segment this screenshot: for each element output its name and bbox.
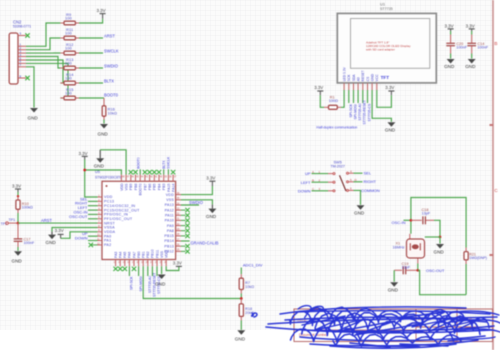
no-connect X marks on U5 bottom pins — [113, 267, 136, 271]
junction on 3.3V wire — [83, 169, 86, 172]
power 3.3V above R10 — [12, 184, 21, 192]
crystal X1 16MHz — [393, 234, 425, 264]
CN2 pin 7 — [18, 63, 26, 67]
connector CN2 — [9, 19, 31, 84]
resistor R1 — [324, 96, 341, 110]
svg-text:GND: GND — [206, 214, 217, 219]
svg-text:B: B — [494, 41, 497, 46]
svg-text:with SD card adapter: with SD card adapter — [366, 48, 395, 52]
svg-text:PA4: PA4 — [119, 252, 123, 258]
SW5 pin 6 — [349, 187, 354, 191]
wire CN2 pin4 to R13 — [26, 57, 60, 69]
U1 pin LED 3.3V — [343, 66, 347, 90]
wire U1 CS stub — [367, 90, 369, 103]
svg-text:TM-2027: TM-2027 — [331, 165, 345, 169]
no-connect X marks on U5 top pins — [129, 170, 176, 174]
svg-text:GND: GND — [354, 211, 365, 216]
U5 top pin labels — [120, 183, 176, 196]
wire U5 PA1 to net DOWN — [88, 240, 98, 242]
test point TP1 — [1, 218, 19, 226]
svg-text:PA9: PA9 — [167, 224, 174, 228]
wire R15 to net BOOT0 and R16 — [79, 97, 104, 99]
svg-text:100: 100 — [65, 16, 72, 21]
power 3.3V below right of U5 — [173, 261, 182, 267]
svg-text:LED 3.3V: LED 3.3V — [343, 66, 347, 81]
wire U5 PB2 pin down — [147, 266, 149, 276]
SW5 pin 4 — [349, 170, 354, 174]
U1 pin SCK — [347, 74, 351, 90]
svg-text:3.3V: 3.3V — [55, 228, 64, 233]
wire U1 RESET stub — [362, 90, 364, 103]
wire 3.3V to R1 — [320, 95, 324, 107]
svg-text:GND: GND — [235, 337, 246, 342]
svg-text:GND: GND — [385, 128, 396, 133]
svg-text:GND: GND — [371, 73, 375, 81]
svg-text:GND: GND — [12, 258, 23, 263]
wire U5 PB0 pin down — [138, 266, 140, 276]
U5 bottom pin labels — [114, 249, 169, 258]
svg-text:BOOT0: BOOT0 — [136, 157, 140, 169]
svg-text:100Ω: 100Ω — [329, 99, 338, 103]
svg-text:ST7735-RESET: ST7735-RESET — [363, 100, 367, 124]
svg-text:ARST: ARST — [104, 34, 115, 39]
svg-text:COMMON: COMMON — [361, 188, 380, 193]
resistor R12 — [60, 42, 79, 55]
svg-text:PB4: PB4 — [157, 183, 161, 190]
U1 pin SDA — [352, 74, 356, 90]
wire junction to ground — [439, 237, 441, 244]
svg-text:SPI-SCK: SPI-SCK — [349, 103, 353, 117]
svg-text:3.3V: 3.3V — [206, 176, 215, 181]
U5 right pin labels — [164, 193, 174, 254]
svg-text:3.3V: 3.3V — [79, 151, 88, 156]
wire U1 VCC pin to 3.3V — [377, 90, 392, 107]
svg-text:PB2: PB2 — [146, 251, 150, 258]
wire crystal bottom loop — [418, 270, 466, 294]
svg-text:TP1: TP1 — [9, 218, 16, 222]
svg-text:DOWN: DOWN — [75, 236, 88, 241]
svg-text:U5: U5 — [95, 170, 100, 174]
svg-text:100kΩ: 100kΩ — [22, 206, 33, 210]
svg-text:GND: GND — [388, 288, 399, 293]
svg-text:100: 100 — [65, 46, 72, 51]
svg-text:GND: GND — [98, 132, 109, 137]
junction OSC-OUT node — [416, 269, 419, 272]
wire C20 to ground — [450, 54, 452, 59]
svg-text:3.3V: 3.3V — [385, 85, 394, 90]
wire CN2 pin2 to R11 — [26, 38, 60, 50]
U5 bottom pin stubs (pins 13-24) — [116, 260, 167, 267]
ground symbol below C19 — [388, 282, 399, 292]
wire TP1 junction to U5 NRST (net ARST) — [18, 222, 98, 224]
svg-text:PB5: PB5 — [153, 183, 157, 190]
wire SW5 pin C3 to net DOWN — [312, 190, 329, 192]
svg-text:RESET: RESET — [361, 70, 365, 81]
wire 3.3V to C20 — [450, 31, 452, 35]
ground symbol below U5 — [155, 275, 166, 287]
wire U5 PF1 to net OSC-OUT — [88, 218, 98, 220]
svg-text:10kΩ: 10kΩ — [245, 285, 254, 289]
capacitor C20 100nF — [446, 35, 467, 54]
svg-text:53398-0771: 53398-0771 — [13, 25, 31, 29]
wire U1 SDA stub — [353, 90, 355, 103]
CN2 pin 2 — [18, 46, 26, 50]
no-connect stubs and X marks on U5 right pins — [181, 210, 186, 251]
wire U5 PA15 pin up — [167, 169, 169, 174]
wire U5 VSSA pin to ground — [52, 228, 98, 232]
svg-text:3.3V: 3.3V — [97, 8, 106, 13]
junction TP1 node — [17, 222, 20, 225]
svg-text:PA5: PA5 — [123, 252, 127, 258]
svg-text:100nF: 100nF — [477, 46, 488, 50]
wire U1 SCK stub — [348, 90, 350, 103]
wire U1 A0 stub — [357, 90, 359, 103]
svg-text:Half-duplex communication: Half-duplex communication — [316, 126, 357, 130]
svg-text:VDD: VDD — [104, 195, 113, 199]
junction OSC-IN node — [410, 219, 413, 222]
svg-text:SDA: SDA — [352, 74, 356, 82]
svg-text:PB11: PB11 — [155, 250, 159, 258]
U5 left pin stubs (pins 1-12) — [98, 197, 103, 245]
wire R21 to bottom loop — [465, 264, 467, 295]
svg-text:PB7: PB7 — [143, 183, 147, 190]
wire U5 PC14 to net RIGHT — [88, 205, 98, 207]
svg-text:ADC1_DIV: ADC1_DIV — [243, 262, 263, 267]
svg-text:100: 100 — [65, 76, 72, 81]
resistor R15 — [60, 87, 79, 100]
svg-text:100: 100 — [65, 61, 72, 66]
svg-text:PB1: PB1 — [142, 251, 146, 258]
svg-text:CN2: CN2 — [13, 19, 22, 24]
power 3.3V above U5 — [79, 151, 88, 160]
resistor R10 100k — [16, 197, 33, 214]
svg-text:PA12: PA12 — [165, 208, 174, 212]
wire SW5 pin 6 COMMON to ground — [354, 190, 361, 204]
wire U5 PB3 pin up — [163, 169, 165, 174]
power 3.3V above C14 — [466, 23, 475, 31]
svg-text:PA10: PA10 — [165, 219, 174, 223]
wire C19 to ground — [393, 270, 395, 281]
SW5 pin A1 — [312, 170, 333, 174]
svg-text:ST7735-CS: ST7735-CS — [367, 103, 371, 121]
svg-text:GND: GND — [28, 116, 39, 121]
svg-text:CS: CS — [366, 76, 370, 81]
wire R16 to ground — [103, 120, 105, 124]
svg-text:GND: GND — [94, 163, 105, 168]
resistor R7 10k — [239, 274, 254, 293]
CN2 pin 8 — [18, 74, 26, 78]
wire 3.3V to C14 — [471, 31, 473, 35]
wire 3.3V to U5 VDD pins — [85, 160, 98, 198]
wire U5 BOOT0 pin up — [139, 169, 141, 174]
ground symbol right of U5 — [206, 205, 217, 219]
svg-text:VSS: VSS — [166, 198, 174, 202]
power 3.3V right of U1 — [385, 85, 394, 95]
resistor R18 20k — [239, 299, 254, 321]
svg-text:PA2: PA2 — [104, 243, 111, 247]
wire U5 PB10 pin down — [151, 266, 153, 276]
wire C18 to crystal case junction — [434, 220, 440, 237]
capacitor C19 13pF — [394, 262, 418, 274]
svg-text:VCC: VCC — [375, 74, 379, 82]
svg-text:OSC-IN: OSC-IN — [392, 220, 406, 225]
svg-text:PB14: PB14 — [164, 239, 174, 243]
svg-text:SWDIO: SWDIO — [104, 64, 118, 69]
junction ADC divider node — [240, 297, 243, 300]
wire U5 PC15 to net LEFT — [88, 209, 98, 211]
ground symbol right of crystal — [434, 244, 445, 254]
svg-text:GND: GND — [155, 281, 166, 286]
svg-text:PA6: PA6 — [128, 252, 132, 258]
svg-text:PA1: PA1 — [104, 239, 111, 243]
U5 right pin numbers — [177, 192, 180, 252]
svg-text:3.3V: 3.3V — [314, 85, 323, 90]
capacitor C17 100nF — [14, 223, 35, 247]
wire U5 PA0 to net UP — [88, 235, 98, 237]
svg-text:100nF: 100nF — [456, 46, 467, 50]
svg-text:GRAND-CALIB: GRAND-CALIB — [191, 241, 219, 246]
svg-text:A0: A0 — [357, 77, 361, 81]
blue pen scribble over title block — [252, 306, 500, 349]
ground symbol below R18 — [235, 330, 246, 341]
svg-text:PA3: PA3 — [114, 252, 118, 258]
svg-text:GND: GND — [465, 64, 476, 69]
CN2 pin 4 — [18, 53, 26, 57]
wire R13 to net SWDIO — [79, 67, 103, 69]
svg-text:PB9: PB9 — [129, 183, 133, 190]
svg-text:16MHz: 16MHz — [393, 246, 405, 250]
CN2 pin 1 — [18, 43, 26, 47]
svg-text:PB10: PB10 — [151, 249, 155, 258]
U1 pin RESET — [361, 70, 365, 90]
ground symbol below SW5 — [354, 205, 365, 215]
svg-text:PA7: PA7 — [132, 252, 136, 258]
CN2 pin 9 — [18, 32, 26, 36]
power 3.3V right of U5 — [206, 176, 215, 186]
wire net ADC1_DIV to R7 — [240, 268, 242, 275]
svg-text:SWDIO: SWDIO — [189, 200, 203, 205]
svg-text:3.3V: 3.3V — [12, 184, 21, 189]
wire R11 to net ARST — [79, 37, 103, 39]
wire CN2 pin3 to R12 — [26, 52, 60, 54]
svg-text:3.3V: 3.3V — [173, 261, 182, 266]
svg-text:VDDA: VDDA — [104, 230, 116, 234]
svg-text:PA15: PA15 — [167, 183, 171, 191]
wire junction to U5 top VDD pin — [85, 170, 122, 175]
svg-text:ST7735: ST7735 — [380, 7, 393, 11]
svg-text:PB15: PB15 — [164, 234, 174, 238]
U5 right pin stubs (pins 25-36) — [176, 195, 181, 252]
power 3.3V left of U5 — [55, 228, 64, 238]
svg-text:3.3V: 3.3V — [445, 23, 454, 28]
svg-text:RIGHT: RIGHT — [364, 179, 377, 184]
svg-text:SWCLK: SWCLK — [104, 49, 119, 54]
svg-text:13pF: 13pF — [402, 266, 411, 270]
SW5 pin B2 — [312, 179, 333, 183]
svg-text:PA8: PA8 — [167, 229, 174, 233]
CN2 pin 3 — [18, 49, 26, 53]
resistor R11 — [60, 27, 79, 40]
svg-text:TFT: TFT — [381, 75, 390, 80]
svg-text:3.3V: 3.3V — [466, 23, 475, 28]
svg-text:10kΩ: 10kΩ — [108, 111, 117, 116]
svg-text:SPI-SCK: SPI-SCK — [130, 276, 134, 290]
svg-text:PF0/OSC_IN: PF0/OSC_IN — [104, 213, 128, 217]
svg-text:BLTX: BLTX — [162, 160, 166, 169]
svg-text:LEFT: LEFT — [301, 180, 311, 185]
ground symbol below R16 — [98, 124, 109, 137]
wire 3.3V to R10 — [17, 192, 19, 197]
U5 left pin numbers 1-12 — [97, 194, 100, 245]
ground symbol left of U5 — [46, 232, 57, 245]
wire CN2 pin5 to R14 — [26, 60, 63, 83]
power 3.3V above R9 — [97, 8, 106, 19]
svg-text:GND: GND — [46, 240, 57, 245]
wire crystal bottom pin to OSC-OUT junction — [417, 264, 419, 271]
svg-text:PB6: PB6 — [148, 183, 152, 190]
ground symbol below CN2 — [28, 108, 39, 121]
ground symbol below C17 — [12, 251, 23, 263]
ground symbol above U5 — [94, 150, 105, 169]
svg-text:SCK: SCK — [347, 74, 351, 82]
svg-text:UP: UP — [305, 171, 311, 176]
wire C14 to ground — [471, 54, 473, 59]
wire U5 PC13 to net SEL — [88, 200, 98, 202]
wire U5 PB1 pin to ADC divider — [143, 266, 241, 298]
wire SW5 pin A1 to net UP — [312, 173, 329, 175]
svg-text:NRST: NRST — [104, 221, 116, 225]
U5 left pin labels — [104, 195, 140, 247]
ground symbol below C20 — [444, 59, 455, 69]
svg-text:PA13: PA13 — [165, 203, 174, 207]
svg-text:ST7735-A0: ST7735-A0 — [358, 103, 362, 120]
svg-text:Document Number:: Document Number: — [299, 333, 328, 337]
CN2 pin 5 — [18, 56, 26, 60]
svg-text:PB3: PB3 — [162, 183, 166, 190]
wire C17 to ground — [17, 247, 19, 251]
svg-text:BOOT0: BOOT0 — [104, 93, 119, 98]
resistor R13 — [60, 57, 79, 70]
svg-text:STM32F030C8T6: STM32F030C8T6 — [95, 176, 122, 180]
svg-text:SWCLK: SWCLK — [167, 156, 171, 169]
wire CN2 pin7 to ground — [26, 67, 34, 108]
svg-text:OSC-OUT: OSC-OUT — [69, 214, 88, 219]
svg-text:BLTX: BLTX — [104, 79, 114, 84]
svg-text:1MΩ(DNP): 1MΩ(DNP) — [469, 256, 487, 260]
wire crystal top loop — [411, 198, 466, 248]
svg-text:PB13: PB13 — [164, 244, 174, 248]
svg-text:PA14: PA14 — [172, 183, 176, 191]
resistor R21 1M DNP — [464, 248, 487, 265]
svg-text:VSS: VSS — [160, 250, 164, 258]
CN2 pin 6 — [18, 60, 26, 64]
svg-text:13pF: 13pF — [422, 212, 431, 216]
svg-text:DOWN: DOWN — [298, 188, 311, 193]
U1 pin A0 — [357, 77, 361, 90]
no-connect X on CN2 pin 8 — [25, 76, 29, 80]
no-connect stub and X on U5 PA2 — [91, 244, 98, 246]
svg-text:VSS: VSS — [125, 183, 129, 191]
no-connect X on CN2 pin 9 — [25, 33, 29, 37]
svg-text:PB8: PB8 — [134, 183, 138, 190]
wire SW5 pin 4 to net SEL — [354, 172, 363, 174]
resistor R9 — [60, 12, 79, 25]
TFT display module U1 ST7735 — [337, 1, 436, 83]
svg-text:PB0: PB0 — [137, 251, 141, 258]
svg-text:SEL: SEL — [364, 171, 372, 176]
wire OSC-IN stub — [404, 219, 411, 221]
wire U5 PA13 pin to net SWDIO — [181, 204, 199, 206]
title block — [294, 309, 493, 342]
sheet frame right border — [490, 0, 494, 350]
SW5 pin C3 — [312, 187, 333, 191]
wire U1 GND pin to ground — [372, 90, 391, 122]
wire CN2 pin1 to R9 — [26, 23, 60, 46]
ground symbol right of U1 — [385, 122, 396, 132]
wire R14 to net BLTX — [79, 82, 103, 84]
ground symbol below C14 — [465, 59, 476, 69]
wire CN2 pin6 to R15 — [26, 63, 68, 98]
U1 pin GND — [371, 73, 375, 90]
wire U5 bottom VDD pin to 3.3V — [166, 266, 179, 270]
5-way switch SW5 TM-2027 — [331, 160, 349, 191]
U1 pin CS — [366, 76, 370, 90]
wire SW5 pin 5D to net RIGHT — [354, 181, 363, 183]
svg-text:U1: U1 — [380, 1, 386, 6]
svg-text:SPI-MOSI: SPI-MOSI — [353, 104, 357, 119]
wire U5 PB14 pin to net GRAND-CALIB — [181, 240, 190, 242]
wire crystal case pin to junction — [425, 236, 440, 238]
resistor R16 — [102, 98, 117, 120]
svg-text:OSC-OUT: OSC-OUT — [426, 268, 445, 273]
svg-text:100: 100 — [65, 31, 72, 36]
SW5 pin 5D — [349, 178, 358, 182]
svg-text:GND: GND — [444, 64, 455, 69]
wire R10 to TP1 junction — [17, 213, 19, 223]
wire R18 to ground — [240, 320, 242, 329]
wire R7 to divider junction — [240, 294, 242, 299]
wire U5 VDDA pin to 3.3V — [61, 232, 98, 239]
svg-text:100nF: 100nF — [24, 241, 35, 245]
svg-text:PC14/OSC32_IN: PC14/OSC32_IN — [104, 204, 135, 208]
svg-text:BOOT0: BOOT0 — [139, 183, 143, 195]
wire R12 to net SWCLK — [79, 52, 103, 54]
svg-text:PA11: PA11 — [165, 214, 174, 218]
svg-text:SPI-MOSI: SPI-MOSI — [139, 276, 143, 291]
wire U5 bottom VSS pin to ground — [161, 266, 163, 274]
wire U5 top VSS pin to ground — [100, 150, 126, 175]
svg-text:VDD: VDD — [120, 183, 124, 191]
capacitor C18 13pF — [411, 208, 434, 224]
wire U5 PB11 pin down — [156, 266, 158, 276]
svg-text:100: 100 — [65, 91, 72, 96]
svg-text:ST7735-A0: ST7735-A0 — [148, 276, 152, 293]
capacitor C14 100nF — [467, 35, 488, 54]
U5 bottom pin numbers — [114, 262, 168, 264]
wire SW5 pin B2 to net LEFT — [312, 181, 329, 183]
wire U5 right VSS pin to ground — [181, 200, 212, 205]
U1 pin VCC — [375, 74, 379, 90]
svg-text:VDD: VDD — [166, 193, 174, 197]
svg-text:VDD: VDD — [165, 250, 169, 258]
svg-text:GND: GND — [434, 249, 445, 254]
U5 top pin numbers — [122, 177, 177, 179]
svg-text:ARST: ARST — [41, 218, 52, 223]
resistor R14 — [60, 72, 79, 85]
wire U5 PF0 to net OSC-IN — [88, 213, 98, 215]
junction crystal case node — [439, 236, 442, 239]
wire R9 to 3.3V — [79, 19, 103, 23]
